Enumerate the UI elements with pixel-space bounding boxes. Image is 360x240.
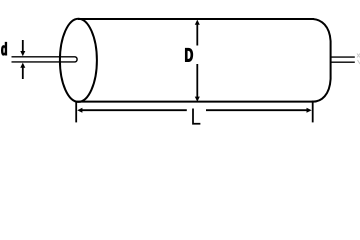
L extension line right: [312, 101, 314, 123]
dimension line L left segment with left arrowhead: [77, 108, 187, 113]
right lead wire (two parallel lines): [331, 57, 355, 62]
left lead wire (outline with rounded inner tip): [12, 57, 78, 62]
label D (body diameter): [185, 48, 192, 61]
dimension arrow d lower (pointing up to wire bottom): [20, 63, 25, 79]
dimension arrow d upper (pointing down to wire top): [20, 40, 25, 56]
label d (lead diameter): [1, 42, 6, 55]
dimension line L right segment with right arrowhead: [206, 108, 312, 113]
cylinder left end cap (ellipse): [60, 19, 97, 102]
faint cropped mark at right edge: [357, 54, 360, 65]
dimension line D vertical lower segment with down arrowhead: [195, 64, 200, 102]
cylinder body bottom edge (wire): [77, 101, 313, 103]
cylinder body top edge (wire): [78, 18, 314, 20]
label L (body length): [192, 109, 200, 125]
dimension line D vertical upper segment with up arrowhead: [195, 20, 200, 46]
L extension line left: [75, 102, 77, 123]
cylinder right end cap (rounded): [313, 19, 331, 102]
